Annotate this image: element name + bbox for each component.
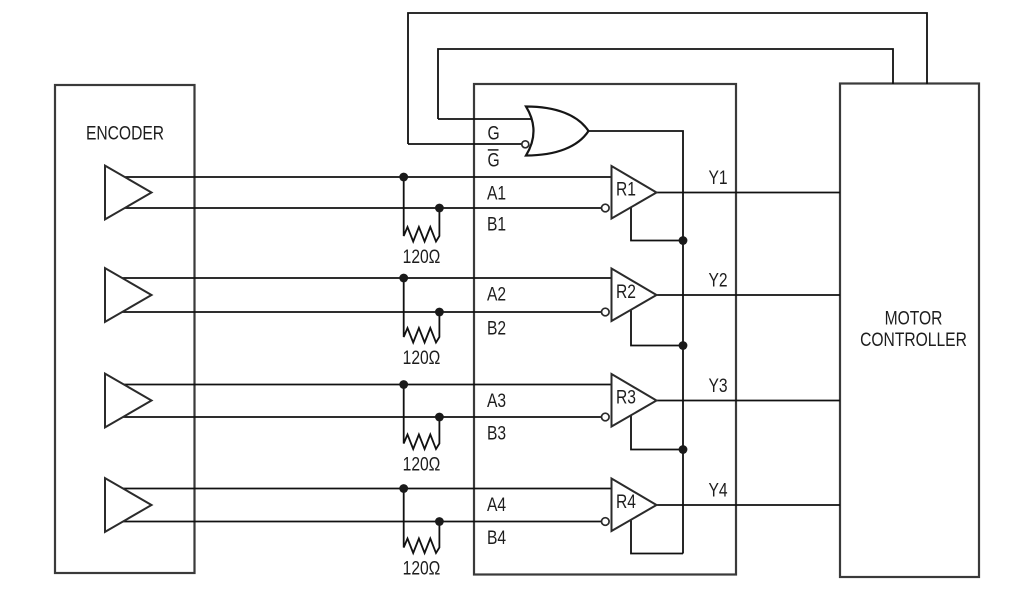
svg-text:MOTOR: MOTOR [885,307,943,329]
junction dot A1 [399,173,408,182]
bubble: R4 inverting input B4 [602,518,610,526]
svg-text:Y3: Y3 [709,374,728,396]
svg-text:G: G [488,122,500,144]
receiver R1 [612,166,657,219]
resistor 120 ohm termination ch2 [404,278,440,343]
bubble: gate GBAR inverting input [522,141,529,148]
receiver R2 [612,269,657,322]
bubble: R3 inverting input B3 [602,413,610,421]
receiver R4 [612,479,657,532]
resistor 120 ohm termination ch4 [404,489,440,554]
wire: A3 pair line [118,384,612,386]
svg-text:R1: R1 [616,178,636,200]
receiver R3 [612,374,657,427]
wire: B3 pair line [118,416,602,418]
junction dot B1 [435,204,444,213]
bubble: R1 inverting input B1 [602,204,610,212]
encoder line driver 2 [105,268,152,322]
receiver IC box U1 [474,84,736,575]
wire: A4 pair line [118,488,612,490]
junction dot enable rail ch1 [679,236,688,245]
wire: R1 enable to rail [631,203,683,241]
enable OR gate with inverted input [526,107,589,156]
wire: A1 pair line [118,176,612,178]
encoder line driver 1 [105,166,152,220]
svg-text:R4: R4 [616,490,636,512]
svg-text:120Ω: 120Ω [403,245,441,267]
svg-text:B1: B1 [487,213,506,235]
junction dot A2 [399,274,408,283]
svg-text:120Ω: 120Ω [403,453,441,475]
svg-text:Y2: Y2 [709,269,728,291]
svg-text:120Ω: 120Ω [403,346,441,368]
encoder line driver 3 [105,374,152,428]
wire: Y2 output to motor controller [655,294,840,296]
wire: R2 enable to rail [631,305,683,346]
svg-text:B3: B3 [487,422,506,444]
wire: A2 pair line [118,277,612,279]
svg-text:120Ω: 120Ω [403,557,441,579]
wire: Y1 output to motor controller [655,192,840,194]
svg-text:A2: A2 [487,283,506,305]
wire: B4 pair line [118,521,602,523]
resistor 120 ohm termination ch1 [404,177,440,242]
junction dot A4 [399,484,408,493]
junction dot A3 [399,380,408,389]
junction dot B2 [435,308,444,317]
svg-text:A3: A3 [487,389,506,411]
wire: B2 pair line [118,311,602,313]
wire: B1 pair line [118,207,602,209]
junction dot B4 [435,517,444,526]
wire: G enable loop to motor controller [438,49,893,119]
encoder line driver 4 [105,478,152,532]
junction dot B3 [435,413,444,422]
svg-text:A4: A4 [487,493,506,515]
wire: Y4 output to motor controller [655,504,840,506]
wire: G input [438,118,534,120]
junction dot enable rail ch2 [679,341,688,350]
encoder box [55,85,195,573]
svg-text:ENCODER: ENCODER [86,122,164,144]
svg-text:R2: R2 [616,280,636,302]
svg-text:B4: B4 [487,526,506,548]
resistor 120 ohm termination ch3 [404,385,440,450]
label MOTOR CONTROLLER [860,307,967,350]
svg-text:CONTROLLER: CONTROLLER [860,328,967,350]
bubble: R2 inverting input B2 [602,308,610,316]
motor controller box [840,84,979,578]
wire: R4 enable to rail [631,515,683,554]
wire: Y3 output to motor controller [655,400,840,402]
svg-text:Y4: Y4 [709,479,728,501]
wire: R3 enable to rail [631,411,683,450]
svg-text:R3: R3 [616,386,636,408]
svg-text:Y1: Y1 [709,166,728,188]
wire: GBAR enable loop to motor controller [408,13,927,144]
svg-text:A1: A1 [487,182,506,204]
wire: GBAR input [408,143,522,145]
junction dot enable rail ch3 [679,445,688,454]
svg-text:G: G [488,149,500,171]
svg-text:B2: B2 [487,317,506,339]
pin label GBAR [488,149,500,171]
wire: gate output to enable rail [585,131,683,554]
